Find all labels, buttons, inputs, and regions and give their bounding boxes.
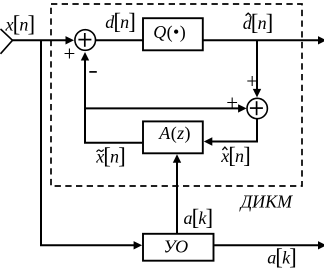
- label + at S2 left input: [226, 90, 238, 114]
- label d[n]: [105, 9, 135, 34]
- svg-text:x[n]: x[n]: [95, 143, 125, 168]
- wire A(z) output to S1 minus input, with branch to S2: [81, 52, 142, 143]
- label d̂[n]: [243, 10, 273, 35]
- label ДИКМ: [239, 191, 293, 211]
- dashed box ДИКМ boundary: [51, 4, 302, 186]
- label + at S1 input: [64, 42, 76, 66]
- wire S1 to Q: [96, 39, 143, 41]
- label x[n]: [5, 12, 35, 37]
- wire УО output: [214, 241, 324, 249]
- wire S2 output to A(z): [204, 118, 257, 146]
- label a[k] (vertical wire): [184, 205, 213, 230]
- svg-text:+: +: [226, 90, 238, 114]
- svg-text:+: +: [64, 42, 76, 66]
- label + above S2: [246, 69, 258, 93]
- control block УО: [143, 234, 214, 261]
- wire x[n] input to summer S1: [12, 36, 74, 44]
- label x̃[n]: [95, 143, 125, 168]
- wire down to summer S2: [253, 40, 261, 97]
- wire branch down to УО: [41, 40, 142, 249]
- svg-text:ДИКМ: ДИКМ: [239, 191, 293, 211]
- svg-text:a[k]: a[k]: [184, 205, 213, 230]
- svg-text:x[n]: x[n]: [5, 12, 35, 37]
- label x̂[n]: [220, 143, 250, 168]
- svg-text:+: +: [246, 69, 258, 93]
- quantizer block Q: [143, 18, 203, 50]
- predictor block A(z): [143, 121, 203, 153]
- summing junction S1: [75, 30, 96, 51]
- wire УО to A(z) (a[k]): [173, 154, 181, 234]
- wire x̃ to S2 left input: [85, 104, 247, 112]
- svg-text:Q(•): Q(•): [153, 22, 186, 43]
- wire Q to output: [203, 36, 324, 44]
- label − at S1 feedback input: [89, 71, 97, 73]
- svg-text:d[n]: d[n]: [105, 9, 135, 34]
- svg-text:УО: УО: [164, 237, 189, 257]
- input source tick: [1, 29, 13, 54]
- summing junction S2: [247, 98, 267, 118]
- label a[k] (output): [267, 244, 296, 269]
- svg-text:a[k]: a[k]: [267, 244, 296, 269]
- svg-text:A(z): A(z): [158, 123, 191, 144]
